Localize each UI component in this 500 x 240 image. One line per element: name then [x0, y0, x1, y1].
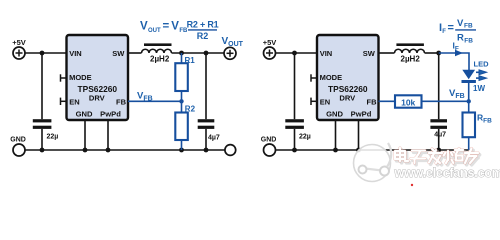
svg-text:RFB: RFB [477, 113, 492, 125]
svg-text:VFB: VFB [449, 88, 465, 100]
node VFB (right) [467, 99, 471, 103]
wire 10k to VFB node [422, 100, 469, 102]
svg-text:F: F [442, 29, 446, 35]
svg-text:FB: FB [116, 98, 127, 107]
wire R2 to ground [181, 140, 183, 150]
svg-text:4µ7: 4µ7 [208, 135, 220, 142]
svg-text:VFB: VFB [137, 91, 153, 103]
svg-text:22µ: 22µ [47, 134, 59, 141]
svg-text:+5V: +5V [263, 38, 277, 47]
svg-text:VIN: VIN [320, 49, 333, 58]
svg-text:=: = [163, 21, 170, 33]
svg-text:LED: LED [474, 60, 490, 69]
wire output cap top [205, 53, 207, 119]
resistor R2 [175, 105, 195, 141]
svg-text:GND: GND [261, 136, 277, 143]
svg-text:10k: 10k [401, 97, 415, 107]
red speck [411, 184, 413, 186]
terminal VOUT [222, 36, 244, 59]
node SW output (right) [436, 51, 441, 56]
node output cap top [204, 51, 209, 56]
svg-text:FB: FB [464, 37, 473, 44]
ground rail (right circuit) [276, 149, 469, 151]
svg-text:V: V [171, 21, 179, 33]
svg-text:R: R [457, 33, 464, 44]
svg-text:V: V [140, 21, 148, 33]
svg-text:4µ7: 4µ7 [434, 132, 446, 139]
inductor L2 2uH2 (right) [395, 43, 425, 63]
terminal +5V (left) [12, 38, 26, 59]
GND pin wire [84, 120, 86, 150]
formula IF = VFB/RFB [439, 18, 476, 45]
current arrow IF [455, 50, 463, 56]
capacitor C_out 4u7 (right) [430, 119, 447, 138]
blue wire node to LED [439, 53, 469, 70]
svg-text:VIN: VIN [69, 49, 82, 58]
capacitor C_in 22u (right) [285, 119, 311, 140]
wire +5V to VIN [25, 52, 67, 54]
wire LED to VFB node [468, 83, 470, 113]
svg-text:R2: R2 [185, 105, 196, 114]
node input cap junction (right) [292, 51, 297, 56]
svg-text:=: = [448, 22, 454, 34]
ground rail (left circuit) [25, 149, 225, 151]
terminal out-gnd (left, open circle) [225, 145, 236, 156]
svg-text:DRV: DRV [339, 94, 356, 103]
watermark chinese text 电子发烧友 [395, 148, 480, 165]
svg-text:SW: SW [112, 49, 125, 58]
svg-text:MODE: MODE [320, 73, 343, 82]
wire output cap bottom [205, 129, 207, 150]
svg-text:EN: EN [69, 98, 79, 107]
wire input cap bottom [41, 129, 43, 150]
terminal +5V (right) [263, 38, 277, 59]
resistor 10k [395, 95, 422, 107]
node FB (blue) [179, 99, 183, 103]
svg-text:PwPd: PwPd [351, 110, 372, 119]
svg-text:FB: FB [464, 23, 473, 30]
resistor R1 [175, 56, 195, 91]
wire R1 to R2 [181, 91, 183, 113]
wire input cap top (right) [294, 53, 296, 119]
wire input cap bottom (right) [294, 129, 296, 150]
junction dots ground rail (right) [292, 148, 297, 153]
svg-text:VOUT: VOUT [222, 36, 244, 48]
MODE pin stub (left) [61, 77, 67, 79]
node input cap junction [40, 51, 45, 56]
svg-text:OUT: OUT [148, 28, 161, 34]
svg-text:R2: R2 [197, 31, 209, 41]
terminal GND (right) [261, 136, 277, 156]
wire FB [128, 100, 182, 102]
svg-text:2µH2: 2µH2 [401, 55, 421, 64]
svg-text:SW: SW [363, 49, 376, 58]
op IC U2 TPS62260 (right) [317, 35, 379, 120]
watermark logo circle [354, 143, 392, 182]
svg-text:FB: FB [367, 98, 378, 107]
svg-text:GND: GND [10, 136, 26, 143]
svg-text:+5V: +5V [12, 38, 26, 47]
svg-text:R2 + R1: R2 + R1 [187, 20, 219, 30]
wire FB to 10k [379, 100, 396, 102]
svg-text:V: V [457, 18, 464, 29]
svg-text:TPS62260: TPS62260 [78, 84, 118, 94]
node R1 top [179, 51, 184, 56]
resistor RFB [463, 113, 493, 138]
svg-text:1W: 1W [473, 84, 485, 93]
svg-text:R1: R1 [185, 56, 196, 65]
wire to R1 [181, 53, 183, 63]
svg-text:PwPd: PwPd [100, 110, 121, 119]
wire RFB to ground [468, 137, 470, 150]
wire output cap (right) [438, 53, 440, 119]
formula VOUT = VFB (R2+R1)/R2 [140, 20, 219, 41]
wire input cap top [41, 53, 43, 119]
wire +5V to VIN (right) [276, 52, 318, 54]
wire SW to inductor (right) [379, 52, 395, 54]
wire SW to inductor [128, 52, 142, 54]
svg-text:DRV: DRV [89, 94, 106, 103]
PwPd pin wire [107, 120, 109, 150]
PwPd pin wire (right) [358, 120, 360, 150]
GND pin wire (right) [335, 120, 337, 150]
LED D1 [462, 60, 490, 94]
junction dots on ground rail [40, 148, 45, 153]
svg-text:GND: GND [326, 110, 343, 119]
svg-text:EN: EN [320, 98, 330, 107]
terminal GND (left) [10, 136, 26, 156]
svg-text:TPS62260: TPS62260 [328, 84, 368, 94]
svg-text:2µH2: 2µH2 [150, 55, 170, 64]
svg-text:MODE: MODE [69, 73, 92, 82]
wire inductor to node (right) [425, 52, 439, 54]
svg-text:22µ: 22µ [299, 134, 311, 141]
LED emission arrows [476, 70, 487, 81]
capacitor C_out 4u7 (left) [198, 119, 220, 141]
wire inductor to VOUT [172, 52, 225, 54]
MODE pin stub (right) [311, 77, 317, 79]
wire output cap bottom (right) [438, 129, 440, 150]
capacitor C_in 22u (left) [33, 119, 59, 140]
EN pin stub (right) [311, 100, 317, 102]
svg-text:www.elecfans.com: www.elecfans.com [394, 166, 500, 180]
EN pin stub (left) [61, 100, 67, 102]
svg-text:GND: GND [76, 110, 93, 119]
inductor L1 2uH2 (left) [142, 43, 172, 63]
op IC U1 TPS62260 (left) [67, 35, 129, 120]
